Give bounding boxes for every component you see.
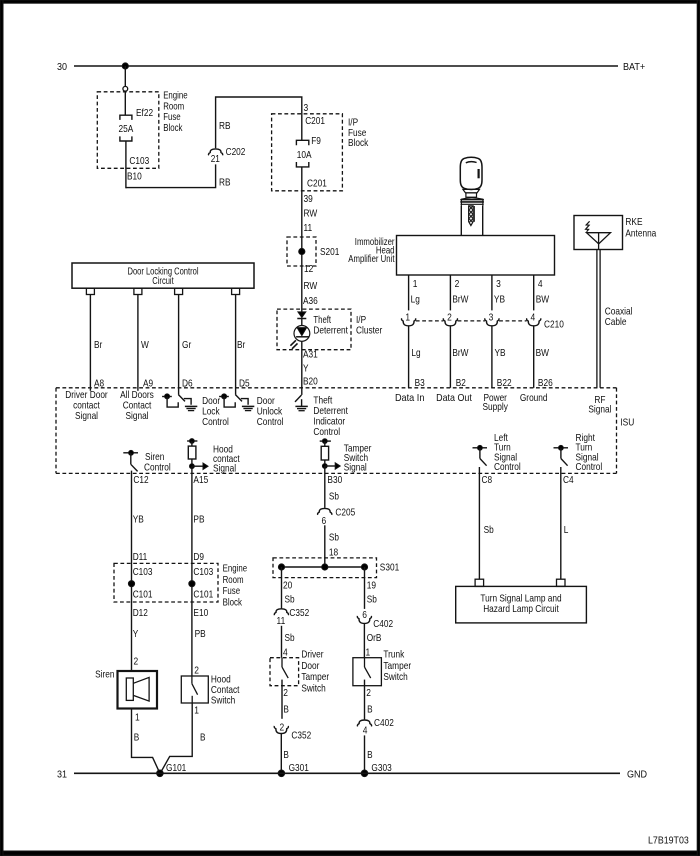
wire D6 (Gr) [178,295,180,395]
svg-text:2: 2 [447,312,452,324]
pin terminal C4 of turn signal box [557,579,566,586]
svg-text:A9: A9 [143,378,153,390]
label Br [94,339,103,351]
wire diode to LED [301,319,303,326]
svg-text:Y: Y [303,362,309,374]
svg-text:RW: RW [304,208,318,220]
pin A8 [94,378,104,390]
svg-text:C202: C202 [226,146,246,158]
hood contact switch [181,676,208,703]
fuse Ef22 25A [120,115,132,141]
pin 2 hood [194,664,199,676]
ignition key head [460,157,482,189]
node 30 [57,61,67,73]
svg-text:18: 18 [329,547,338,559]
engine room fuse block 2 (dashed) [114,563,218,602]
wire C202 to IP fuse block (RB) [216,97,302,148]
connector terminal (open circle) [123,86,128,91]
pin B10 [127,171,142,183]
svg-text:C210: C210 [544,318,564,330]
pin 1 hood [194,704,199,716]
svg-text:C101: C101 [193,588,213,600]
svg-text:2: 2 [366,687,371,699]
svg-text:2: 2 [194,664,199,676]
svg-text:B30: B30 [327,474,342,486]
svg-text:11: 11 [304,222,313,234]
connector C210 pin 4 [527,312,541,326]
svg-text:1: 1 [405,312,410,324]
wire C402 to trunk switch (OrB) [363,623,365,657]
junction S301 middle [322,564,328,570]
label Sb driver [285,594,295,606]
fuse F9 10A [296,140,308,167]
svg-text:Cable: Cable [605,316,627,328]
wire A15 (PB) hood contact [191,466,193,676]
label Sb trunk [367,594,377,606]
svg-text:D5: D5 [239,378,250,390]
label S301 [380,561,400,573]
pin C201 top [305,115,325,127]
block: Door Locking Control Circuit [72,263,254,288]
svg-text:A8: A8 [94,378,104,390]
label Hood contact Signal [213,443,240,474]
label BrW lower [452,347,468,359]
label ISU [620,417,634,429]
label OrB [367,632,382,644]
svg-text:3: 3 [496,278,501,290]
wire C402 to G303 (B) [364,735,366,773]
svg-text:6: 6 [321,515,326,527]
label F9 [311,135,321,147]
label Y [303,362,309,374]
pin terminal 4 of door locking box [232,288,240,294]
svg-text:B: B [134,731,140,743]
svg-text:C103: C103 [129,155,149,167]
svg-text:Cluster: Cluster [356,324,383,336]
switch: door unlock control [219,394,254,411]
label S201 [320,246,340,258]
svg-text:Ground: Ground [520,392,548,404]
wire F9 to S201 (RW) [301,167,303,312]
svg-text:Driver: Driver [301,648,323,660]
svg-text:B: B [367,749,373,761]
label L7B19T03 [648,834,689,846]
svg-text:OrB: OrB [367,632,382,644]
svg-text:A31: A31 [303,348,318,360]
connector C210 pin 1 [401,312,415,326]
wire BAT+ bus [74,65,618,67]
svg-text:C101: C101 [133,588,153,600]
svg-text:B: B [200,731,206,743]
svg-text:Control: Control [576,461,603,473]
svg-text:1: 1 [194,704,199,716]
svg-text:11: 11 [277,615,286,627]
label Siren [95,668,115,680]
wire C352 to tamper switch (Sb) [281,626,283,658]
svg-text:Block: Block [348,137,369,149]
label Door Lock Control [202,395,229,428]
label Ground [520,392,548,404]
pin D9 [193,551,204,563]
svg-text:10A: 10A [297,149,312,161]
svg-text:W: W [141,339,149,351]
wire immobilizer pin 3 to C210 [491,275,493,310]
label B hood [200,731,206,743]
label Door Unlock Control [257,395,284,428]
svg-text:3: 3 [304,102,309,114]
svg-text:BW: BW [536,294,549,306]
connector C402 pin 4 [357,720,371,736]
wire C210 pin 1 to ISU [408,326,410,388]
pin A36 [303,295,318,307]
svg-text:Engine: Engine [223,563,248,575]
svg-text:25A: 25A [119,123,134,135]
svg-text:1: 1 [135,712,140,724]
label Theft Deterrent [313,314,348,336]
engine room fuse block (dashed) [97,92,159,169]
label Engine Room Fuse Block 1 [163,90,188,134]
svg-text:Tamper: Tamper [383,660,411,672]
pin C103 siren [133,566,153,578]
wire bus to fuse Ef22 [124,66,126,86]
svg-text:RW: RW [304,280,318,292]
junction on BAT+ bus [122,63,128,69]
svg-text:C8: C8 [482,474,493,486]
wire C205 to S301 (Sb) [324,525,326,567]
junction C103/C101 hood [189,581,195,587]
svg-text:Data Out: Data Out [436,392,472,404]
label Data Out [436,392,472,404]
splice S201 (dashed) [287,237,316,266]
label Ef22 [136,107,153,119]
wire B30 (Sb) [324,466,326,508]
pin 4 driver tamper [283,647,288,659]
resistor: tamper switch signal pull-up [320,439,341,470]
pin B20 [303,376,318,388]
ground G101 [157,762,187,777]
pin terminal 3 of door locking box [175,288,183,294]
label RW upper [304,208,318,220]
svg-text:4: 4 [363,724,368,736]
label C205 [335,507,355,519]
label C352 lower [291,730,311,742]
svg-text:B22: B22 [497,377,512,389]
pin 19 [367,579,376,591]
pin B26 [538,377,553,389]
label B driver 2 [283,749,289,761]
svg-text:Supply: Supply [483,401,509,413]
svg-text:Siren: Siren [95,668,115,680]
siren [118,671,158,709]
pin A15 [193,474,208,486]
connector C352 pin 11 [274,609,288,627]
pin 1 siren [135,712,140,724]
switch: siren control [123,450,138,471]
connector C352 pin 2 [274,721,288,733]
svg-text:C103: C103 [193,566,213,578]
svg-text:B20: B20 [303,376,318,388]
node 31 [57,768,67,780]
svg-text:D9: D9 [193,551,204,563]
svg-text:D12: D12 [133,607,148,619]
wire S301 to C352 (Sb) [281,567,283,608]
svg-text:G303: G303 [371,762,391,774]
switch: door lock control [162,394,197,411]
svg-text:F9: F9 [311,135,321,147]
pin 1 trunk tamper [366,647,371,659]
pin C103 [129,155,149,167]
label C210 [544,318,564,330]
svg-text:C205: C205 [335,507,355,519]
connector C402 pin 6 [357,609,371,624]
svg-text:Control: Control [313,426,340,438]
label Sb driver 2 [285,632,295,644]
svg-text:2: 2 [280,721,285,733]
svg-text:Br: Br [94,339,103,351]
pin D11 [133,551,148,563]
label YB lower [495,347,506,359]
svg-text:Control: Control [144,461,171,473]
svg-text:Switch: Switch [301,683,326,695]
label Lg lower [411,347,420,359]
wire B10 to C202 (RB) [126,164,216,187]
wire immobilizer pin 2 to C210 [449,275,451,310]
ground G301 [278,762,309,776]
wire C210 pin 4 to ISU [533,326,535,388]
svg-text:Y: Y [133,628,139,640]
pin B30 [327,474,342,486]
svg-text:Ef22: Ef22 [136,107,153,119]
wire coaxial cable [597,250,600,388]
switch: left turn signal control [473,445,488,465]
svg-text:C4: C4 [563,474,574,486]
wire immobilizer pin 4 to C210 [533,275,535,310]
label Hood Contact Switch [211,674,240,707]
wire S301 to C402 (Sb) [364,567,366,609]
pin D5 [239,378,250,390]
wire C210 pin 3 to ISU [491,326,493,388]
resistor: hood contact signal pull-up [187,439,208,470]
label BW upper [536,294,549,306]
wire trunk switch to C402 (B) [364,680,366,720]
svg-text:2: 2 [455,278,460,290]
label Lg upper [411,294,420,306]
svg-text:Sb: Sb [367,594,377,606]
svg-text:Sb: Sb [329,491,339,503]
label Data In [395,392,425,404]
svg-text:S301: S301 [380,561,400,573]
svg-text:C402: C402 [373,618,393,630]
svg-text:Fuse: Fuse [223,585,241,597]
svg-text:G301: G301 [289,762,309,774]
svg-text:A36: A36 [303,295,318,307]
pin 12 [304,263,313,275]
wire A9 (W) [137,295,139,391]
svg-text:YB: YB [133,514,144,526]
svg-text:Sb: Sb [329,531,339,543]
svg-text:2: 2 [283,687,288,699]
label Gr [182,339,192,351]
label Trunk Tamper Switch [383,648,411,683]
pin D12 [133,607,148,619]
svg-text:Trunk: Trunk [383,648,404,660]
svg-text:BAT+: BAT+ [623,61,645,73]
svg-text:C352: C352 [291,730,311,742]
LED indicator (circle) [290,326,309,349]
svg-text:Amplifier Unit: Amplifier Unit [348,253,394,265]
svg-text:Room: Room [223,574,244,586]
svg-text:L: L [564,524,569,536]
svg-text:Gr: Gr [182,339,192,351]
svg-text:Signal: Signal [213,463,236,475]
connector C210 pin 3 [485,312,499,326]
label RF Signal [588,394,611,415]
svg-text:Signal: Signal [75,410,98,422]
svg-text:4: 4 [538,278,543,290]
pin 20 [283,579,292,591]
svg-text:Door: Door [301,660,319,672]
wire A8 (Br) [89,295,91,391]
wire splice bar S301 [282,566,365,568]
switch: theft deterrent indicator control [295,395,308,411]
junction S301 left [278,564,284,570]
label Sb B30 [329,491,339,503]
antenna symbol [586,221,611,249]
svg-text:Signal: Signal [588,403,611,415]
pin 2 immobilizer [455,278,460,290]
svg-text:20: 20 [283,579,292,591]
node BAT+ [623,61,645,73]
pin A9 [143,378,153,390]
label RB lower [219,176,231,188]
svg-text:PB: PB [193,514,204,526]
label B trunk [367,703,373,715]
svg-text:Control: Control [257,416,284,428]
label C352 upper [289,607,309,619]
svg-text:GND: GND [627,768,647,780]
pin B22 [497,377,512,389]
IP cluster (dashed) [277,309,351,350]
svg-text:Signal: Signal [344,462,367,474]
svg-text:31: 31 [57,768,67,780]
junction C103/C101 siren [128,581,134,587]
pin C101 hood [193,588,213,600]
svg-text:RB: RB [219,176,231,188]
pin 2 trunk tamper [366,687,371,699]
svg-text:BrW: BrW [452,347,468,359]
label Theft Deterrent Indicator Control [313,394,348,438]
label YB upper [494,294,505,306]
svg-text:Lg: Lg [411,347,420,359]
svg-text:B10: B10 [127,171,142,183]
diode (theft deterrent LED anode) [297,312,306,319]
label Immobilizer Head Amplifier Unit [348,236,395,265]
wire C210 pin 2 to ISU [449,326,451,388]
svg-text:C103: C103 [133,566,153,578]
ISU module (dashed box) [56,388,617,474]
label RW lower [304,280,318,292]
pin C12 [133,474,148,486]
pin 39 [304,193,313,205]
svg-text:Tamper: Tamper [301,671,329,683]
pin C101 siren [133,588,153,600]
svg-text:B3: B3 [415,377,425,389]
svg-text:Circuit: Circuit [152,275,173,287]
dashed link C210 row [416,320,527,322]
svg-text:PB: PB [195,628,206,640]
svg-text:BrW: BrW [452,294,468,306]
label All Doors Contact Signal [120,389,154,422]
label B trunk 2 [367,749,373,761]
label L C4 [564,524,569,536]
pin terminal C8 of turn signal box [475,579,484,586]
svg-text:Block: Block [163,122,183,134]
label C402 upper [373,618,393,630]
svg-text:E10: E10 [193,607,208,619]
label PB [193,514,204,526]
label Siren Control [144,451,171,473]
pin D6 [182,378,193,390]
svg-text:39: 39 [304,193,313,205]
svg-text:C201: C201 [305,115,325,127]
svg-text:L7B19T03: L7B19T03 [648,834,689,846]
label RKE Antenna [625,216,656,239]
pin 3 immobilizer [496,278,501,290]
label Right Turn Signal Control [576,432,603,473]
svg-text:C201: C201 [307,178,327,190]
label Driver Door Tamper Switch [301,648,329,694]
IP fuse block (dashed) [272,114,343,191]
wire D5 (Br) [235,295,237,395]
svg-text:C12: C12 [133,474,148,486]
wire immobilizer pin 1 to C210 [408,275,410,310]
wire terminal to fuse [124,91,126,115]
wire C352 to G301 (B) [280,734,282,774]
label Br 2 [237,339,246,351]
pin 11 [304,222,313,234]
svg-text:B: B [367,703,373,715]
pin C4 [563,474,574,486]
svg-text:Sb: Sb [285,594,295,606]
wire GND bus [74,772,620,774]
svg-text:1: 1 [366,647,371,659]
label BW lower [536,347,549,359]
wire C4 (L) [560,467,562,579]
svg-text:RB: RB [219,120,231,132]
svg-text:C402: C402 [374,717,394,729]
label RB upper [219,120,231,132]
label B driver [283,703,289,715]
pin 3 [304,102,309,114]
svg-text:Switch: Switch [383,671,408,683]
svg-text:Switch: Switch [211,694,236,706]
connector C210 pin 2 [443,312,457,326]
svg-text:Sb: Sb [484,524,494,536]
ignition key neck [463,189,480,197]
svg-text:Control: Control [202,416,229,428]
svg-text:A15: A15 [193,474,208,486]
svg-text:4: 4 [530,312,535,324]
label B siren [134,731,140,743]
pin C201 bottom [307,178,327,190]
svg-text:21: 21 [211,153,220,165]
pin E10 [193,607,208,619]
svg-text:Control: Control [494,461,521,473]
svg-text:YB: YB [495,347,506,359]
ignition lock collar [460,198,484,206]
label BrW upper [452,294,468,306]
svg-text:Sb: Sb [285,632,295,644]
